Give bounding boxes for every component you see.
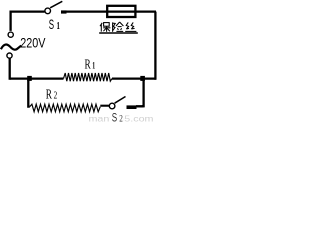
svg-text:S: S bbox=[112, 110, 117, 123]
char 保 bbox=[100, 23, 110, 32]
switch S2 bbox=[109, 103, 115, 109]
node junction left bbox=[27, 76, 32, 81]
label fuse 保险丝 (drawn strokes) bbox=[100, 22, 136, 32]
AC source terminal circle bottom bbox=[7, 53, 12, 58]
svg-text:S: S bbox=[49, 17, 54, 32]
char 丝 bbox=[125, 22, 136, 31]
wire S2 right contact bbox=[127, 105, 137, 109]
resistor R1 zigzag bbox=[64, 73, 113, 81]
right vertical upper bbox=[154, 12, 157, 80]
fuse F (box) bbox=[107, 6, 135, 17]
fuse label underline bbox=[99, 32, 138, 34]
svg-text:R: R bbox=[85, 57, 91, 72]
svg-text:R: R bbox=[46, 87, 52, 102]
R1 rail right segment bbox=[112, 77, 156, 79]
AC tilde bbox=[1, 45, 21, 50]
resistor R2 zigzag bbox=[30, 104, 101, 112]
switch S1 bbox=[45, 8, 51, 14]
wire top (S1 to fuse to right corner) bbox=[61, 10, 67, 13]
char 险 bbox=[113, 22, 124, 32]
svg-text:1: 1 bbox=[92, 61, 95, 72]
wire R2 to S2 bbox=[100, 105, 109, 107]
svg-text:2: 2 bbox=[119, 113, 123, 123]
svg-text:220V: 220V bbox=[20, 36, 46, 51]
svg-text:1: 1 bbox=[57, 21, 60, 32]
wire left drop (junction to R2 rail) bbox=[28, 79, 30, 107]
node junction right bbox=[140, 76, 145, 81]
switch S2 blade bbox=[115, 97, 126, 104]
svg-text:2: 2 bbox=[54, 91, 58, 102]
switch S1 blade bbox=[50, 1, 62, 8]
AC source terminal circle top bbox=[8, 32, 13, 37]
wire top-left horizontal (source to S1) bbox=[11, 12, 45, 31]
left vertical lower (source to R1 rail corner) bbox=[10, 58, 11, 78]
wire right drop (junction to R2 rail corner) bbox=[142, 79, 144, 107]
R1 rail left segment bbox=[10, 77, 64, 79]
